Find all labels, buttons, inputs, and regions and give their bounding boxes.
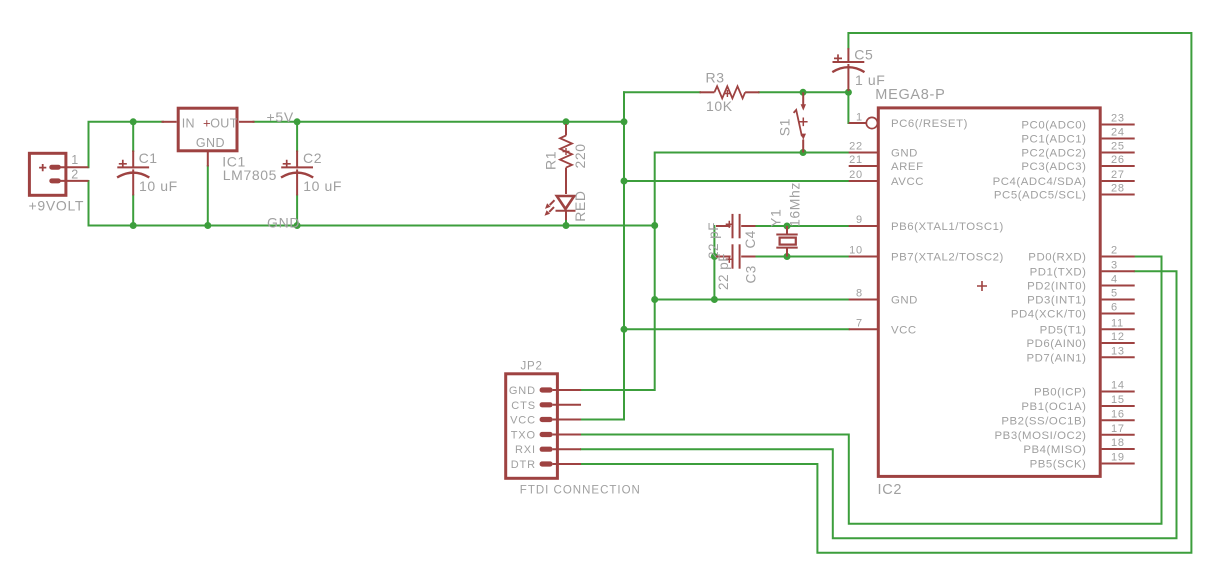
svg-text:15: 15 bbox=[1111, 394, 1125, 406]
plus mark C4 bbox=[726, 221, 733, 228]
wire VCC pin7 bbox=[624, 328, 849, 330]
svg-text:27: 27 bbox=[1111, 169, 1125, 181]
node IC1 GND/GND rail bbox=[204, 222, 211, 229]
switch S1 bbox=[794, 92, 806, 152]
wire connector pin2 down to GND rail bbox=[88, 181, 90, 226]
pin 2 lead X1 bbox=[61, 180, 89, 182]
wire C1 bottom bbox=[132, 195, 134, 225]
capacitor C2 bbox=[281, 151, 313, 196]
pin 1 PC6(/RESET) with inversion circle bbox=[849, 117, 878, 128]
svg-text:PC5(ADC5/SCL): PC5(ADC5/SCL) bbox=[994, 190, 1087, 202]
wire +5V rail from regulator OUT bbox=[254, 121, 625, 123]
svg-text:GND: GND bbox=[891, 295, 918, 307]
pin 17 PB3(MOSI/OC2) stub bbox=[1102, 434, 1135, 436]
wire +9V from connector pin1 to regulator IN bbox=[89, 122, 164, 167]
pad JP2 VCC bbox=[540, 417, 553, 422]
svg-text:C5: C5 bbox=[854, 46, 873, 62]
svg-text:Y1: Y1 bbox=[768, 209, 784, 227]
pad JP2 CTS bbox=[540, 402, 553, 407]
svg-text:JP2: JP2 bbox=[521, 361, 543, 373]
svg-text:GND: GND bbox=[891, 148, 918, 160]
node +5V rail/vertical A bbox=[621, 118, 628, 125]
pin 26 PC3(ADC3) stub bbox=[1102, 165, 1135, 167]
IC IC2 MEGA8-P body bbox=[878, 108, 1100, 477]
plus mark C3 bbox=[726, 256, 733, 263]
wire XTAL1 pin9 bbox=[755, 225, 849, 227]
origin cross IC2 bbox=[977, 281, 987, 291]
svg-text:C1: C1 bbox=[139, 150, 158, 166]
node R1/+5V rail bbox=[563, 118, 570, 125]
pin 8 GND stub bbox=[849, 299, 877, 301]
svg-text:PD5(T1): PD5(T1) bbox=[1040, 325, 1087, 337]
svg-text:16: 16 bbox=[1111, 409, 1125, 421]
svg-text:24: 24 bbox=[1111, 127, 1125, 139]
pin 9 PB6(XTAL1/TOSC1) stub bbox=[849, 225, 877, 227]
header JP2 FTDI connection bbox=[506, 374, 558, 479]
svg-text:IC2: IC2 bbox=[878, 482, 903, 498]
svg-text:C4: C4 bbox=[743, 230, 758, 248]
origin cross R3 bbox=[724, 90, 731, 97]
svg-text:9: 9 bbox=[856, 214, 863, 226]
pin 5 PD3(INT1) stub bbox=[1102, 299, 1135, 301]
svg-text:10 uF: 10 uF bbox=[303, 178, 342, 194]
svg-text:PB5(SCK): PB5(SCK) bbox=[1030, 459, 1087, 471]
svg-text:PB7(XTAL2/TOSC2): PB7(XTAL2/TOSC2) bbox=[891, 252, 1004, 264]
svg-text:25: 25 bbox=[1111, 141, 1125, 153]
svg-text:PC1(ADC1): PC1(ADC1) bbox=[1021, 134, 1086, 146]
node C1/GND rail bbox=[130, 222, 137, 229]
node C5/reset bbox=[845, 89, 852, 96]
pad JP2 DTR bbox=[540, 461, 553, 466]
pin 13 PD7(AIN1) stub bbox=[1102, 356, 1135, 358]
node C2/GND rail bbox=[294, 222, 301, 229]
pad JP2 GND bbox=[540, 387, 553, 392]
svg-text:C3: C3 bbox=[743, 265, 758, 283]
wire R3 left bbox=[624, 91, 700, 93]
svg-text:PB4(MISO): PB4(MISO) bbox=[1023, 444, 1086, 456]
voltage regulator IC1 LM7805 bbox=[178, 108, 237, 151]
svg-text:MEGA8-P: MEGA8-P bbox=[875, 87, 945, 103]
wire TXO to PD0(RXD) bbox=[581, 257, 1162, 524]
crystal Y1 bbox=[776, 226, 797, 257]
svg-text:8: 8 bbox=[856, 288, 863, 300]
resistor R1 bbox=[560, 124, 572, 194]
capacitor C3 bbox=[716, 244, 756, 268]
svg-text:PC0(ADC0): PC0(ADC0) bbox=[1021, 120, 1086, 132]
svg-text:PB1(OC1A): PB1(OC1A) bbox=[1021, 401, 1086, 413]
pin 22 GND stub bbox=[849, 152, 877, 154]
svg-text:6: 6 bbox=[1111, 302, 1118, 314]
node S1/GND bbox=[800, 149, 807, 156]
LED LED1 bbox=[556, 196, 576, 220]
svg-text:21: 21 bbox=[849, 154, 863, 166]
svg-text:VCC: VCC bbox=[510, 415, 536, 427]
svg-text:GND: GND bbox=[196, 136, 225, 150]
svg-text:FTDI CONNECTION: FTDI CONNECTION bbox=[520, 485, 641, 497]
pin 24 PC1(ADC1) stub bbox=[1102, 138, 1135, 140]
pin 3 PD1(TXD) stub bbox=[1102, 270, 1135, 272]
pin 16 PB2(SS/OC1B) stub bbox=[1102, 419, 1135, 421]
svg-text:PB3(MOSI/OC2): PB3(MOSI/OC2) bbox=[995, 430, 1087, 442]
svg-text:23: 23 bbox=[1111, 113, 1125, 125]
pin IN lead IC1 bbox=[162, 121, 177, 123]
svg-text:2: 2 bbox=[71, 168, 79, 182]
svg-text:+9VOLT: +9VOLT bbox=[29, 198, 85, 214]
wire GND rail bbox=[89, 225, 655, 227]
pin 10 PB7(XTAL2/TOSC2) stub bbox=[849, 256, 877, 258]
plus mark X1 positive bbox=[39, 164, 46, 171]
resistor R3 bbox=[700, 86, 760, 98]
node caps/GND bbox=[711, 296, 718, 303]
origin cross S1 bbox=[799, 118, 808, 127]
wire XTAL2 pin10 bbox=[755, 256, 849, 258]
pad JP2 RXI bbox=[540, 447, 553, 452]
pin CTS lead JP2 bbox=[553, 404, 581, 406]
pin 25 PC2(ADC2) stub bbox=[1102, 152, 1135, 154]
svg-text:RED: RED bbox=[572, 190, 588, 221]
wire C3/C4 common to GND bbox=[713, 226, 715, 300]
svg-text:PD0(RXD): PD0(RXD) bbox=[1028, 252, 1086, 264]
wire C2 bottom bbox=[296, 195, 298, 225]
svg-text:PD1(TXD): PD1(TXD) bbox=[1030, 267, 1087, 279]
pin 28 PC5(ADC5/SCL) stub bbox=[1102, 194, 1135, 196]
svg-text:10 uF: 10 uF bbox=[139, 178, 178, 194]
wire GND pin8 bbox=[655, 299, 849, 301]
pad JP2 TXO bbox=[540, 432, 553, 437]
svg-text:18: 18 bbox=[1111, 437, 1125, 449]
svg-text:2: 2 bbox=[1111, 245, 1118, 257]
wire IC1 GND down to GND rail bbox=[207, 166, 209, 226]
svg-text:AREF: AREF bbox=[891, 161, 924, 173]
svg-text:IN: IN bbox=[182, 116, 195, 130]
svg-text:5: 5 bbox=[1111, 288, 1118, 300]
svg-text:19: 19 bbox=[1111, 452, 1125, 464]
svg-text:PC2(ADC2): PC2(ADC2) bbox=[1021, 148, 1086, 160]
svg-text:PB2(SS/OC1B): PB2(SS/OC1B) bbox=[1001, 416, 1086, 428]
svg-text:C2: C2 bbox=[303, 150, 322, 166]
capacitor C4 bbox=[716, 214, 756, 238]
svg-text:1: 1 bbox=[71, 153, 79, 167]
pin 18 PB4(MISO) stub bbox=[1102, 448, 1135, 450]
node C2/+5V rail bbox=[294, 118, 301, 125]
svg-text:13: 13 bbox=[1111, 346, 1125, 358]
pin 12 PD6(AIN0) stub bbox=[1102, 342, 1135, 344]
pin 7 VCC stub bbox=[849, 328, 877, 330]
pin TXO lead JP2 bbox=[553, 434, 581, 436]
svg-text:TXO: TXO bbox=[511, 430, 536, 442]
wire AVCC pin20 bbox=[624, 180, 849, 182]
svg-text:R3: R3 bbox=[706, 70, 725, 86]
svg-text:220: 220 bbox=[572, 143, 588, 168]
svg-text:+5V: +5V bbox=[267, 109, 294, 125]
svg-text:26: 26 bbox=[1111, 154, 1125, 166]
svg-text:PC6(/RESET): PC6(/RESET) bbox=[891, 118, 968, 130]
capacitor C5 bbox=[832, 48, 864, 91]
LED light arrows bbox=[545, 200, 555, 216]
svg-text:PD3(INT1): PD3(INT1) bbox=[1027, 295, 1086, 307]
pin 15 PB1(OC1A) stub bbox=[1102, 405, 1135, 407]
pin VCC lead JP2 bbox=[553, 419, 581, 421]
pin 6 PD4(XCK/T0) stub bbox=[1102, 313, 1135, 315]
svg-text:12: 12 bbox=[1111, 331, 1125, 343]
pin 4 PD2(INT0) stub bbox=[1102, 285, 1135, 287]
svg-text:OUT: OUT bbox=[210, 116, 238, 130]
svg-text:1 uF: 1 uF bbox=[855, 72, 885, 88]
pin 27 PC4(ADC4/SDA) stub bbox=[1102, 180, 1135, 182]
svg-text:7: 7 bbox=[856, 318, 863, 330]
pin 2 PD0(RXD) stub bbox=[1102, 256, 1135, 258]
pin DTR lead JP2 bbox=[553, 463, 581, 465]
svg-text:PC3(ADC3): PC3(ADC3) bbox=[1021, 161, 1086, 173]
pin 23 PC0(ADC0) stub bbox=[1102, 124, 1135, 126]
svg-text:1: 1 bbox=[856, 111, 863, 123]
svg-text:22 pF: 22 pF bbox=[716, 253, 731, 290]
svg-text:VCC: VCC bbox=[891, 325, 917, 337]
wire R3 right to S1/C5 node bbox=[759, 91, 848, 93]
wire C1 top bbox=[132, 122, 134, 151]
wire +5V net: JP2 VCC up vertical A to R3 bbox=[581, 92, 624, 419]
wire RXI to PD1(TXD) bbox=[581, 271, 1177, 538]
pin 19 PB5(SCK) stub bbox=[1102, 463, 1135, 465]
svg-text:20: 20 bbox=[849, 169, 863, 181]
svg-text:PB0(ICP): PB0(ICP) bbox=[1034, 387, 1087, 399]
svg-text:PC4(ADC4/SDA): PC4(ADC4/SDA) bbox=[993, 176, 1087, 188]
pin 20 AVCC stub bbox=[849, 180, 877, 182]
wire LED cathode to GND rail bbox=[565, 219, 567, 226]
svg-text:AVCC: AVCC bbox=[891, 176, 924, 188]
svg-text:16Mhz: 16Mhz bbox=[787, 182, 803, 227]
svg-text:PD7(AIN1): PD7(AIN1) bbox=[1026, 353, 1086, 365]
svg-text:17: 17 bbox=[1111, 423, 1125, 435]
svg-text:DTR: DTR bbox=[511, 459, 536, 471]
svg-text:10K: 10K bbox=[706, 98, 733, 114]
origin cross R1 bbox=[563, 148, 570, 155]
svg-text:GND: GND bbox=[267, 215, 300, 231]
node Y1/XTAL1 bbox=[784, 223, 791, 230]
svg-text:14: 14 bbox=[1111, 380, 1125, 392]
svg-text:PB6(XTAL1/TOSC1): PB6(XTAL1/TOSC1) bbox=[891, 221, 1004, 233]
svg-text:CTS: CTS bbox=[511, 400, 536, 412]
svg-text:10: 10 bbox=[849, 245, 863, 257]
svg-text:PD6(AIN0): PD6(AIN0) bbox=[1026, 338, 1086, 350]
svg-text:11: 11 bbox=[1111, 318, 1124, 330]
node Y1/XTAL2 bbox=[784, 253, 791, 260]
node GND pin8 bbox=[651, 296, 658, 303]
svg-text:LM7805: LM7805 bbox=[223, 167, 277, 183]
wire reset node down to pin1 bbox=[848, 92, 864, 123]
node VCC pin7 bbox=[621, 326, 628, 333]
pin GND lead JP2 bbox=[553, 389, 581, 391]
svg-text:PD4(XCK/T0): PD4(XCK/T0) bbox=[1011, 309, 1087, 321]
pin 11 PD5(T1) stub bbox=[1102, 328, 1135, 330]
node AVCC bbox=[621, 178, 628, 185]
node C3 left bbox=[711, 253, 718, 260]
capacitor C1 bbox=[117, 151, 149, 196]
svg-text:R1: R1 bbox=[543, 151, 559, 170]
wire GND net: JP2 GND up vertical B to pin22 bbox=[581, 153, 849, 391]
svg-text:4: 4 bbox=[1111, 274, 1118, 286]
wire DTR to C5 top bbox=[581, 33, 1191, 553]
node C1/+9V rail bbox=[130, 118, 137, 125]
svg-text:PD2(INT0): PD2(INT0) bbox=[1027, 281, 1086, 293]
node LED/GND rail bbox=[563, 222, 570, 229]
pin GND lead IC1 bbox=[207, 152, 209, 167]
svg-text:GND: GND bbox=[509, 385, 536, 397]
node GND rail/vertical B bbox=[651, 222, 658, 229]
svg-text:28: 28 bbox=[1111, 183, 1125, 195]
svg-text:3: 3 bbox=[1111, 260, 1118, 272]
pin 1 lead X1 bbox=[61, 166, 89, 168]
pin RXI lead JP2 bbox=[553, 448, 581, 450]
wire C2 top bbox=[296, 122, 298, 151]
svg-text:RXI: RXI bbox=[515, 444, 536, 456]
connector X1 +9VOLT bbox=[29, 153, 66, 195]
pin OUT lead IC1 bbox=[239, 121, 255, 123]
svg-text:22: 22 bbox=[849, 141, 863, 153]
pin 21 AREF stub bbox=[849, 165, 877, 167]
svg-text:S1: S1 bbox=[776, 118, 792, 136]
pin 14 PB0(ICP) stub bbox=[1102, 391, 1135, 393]
node R3/S1 bbox=[800, 89, 807, 96]
